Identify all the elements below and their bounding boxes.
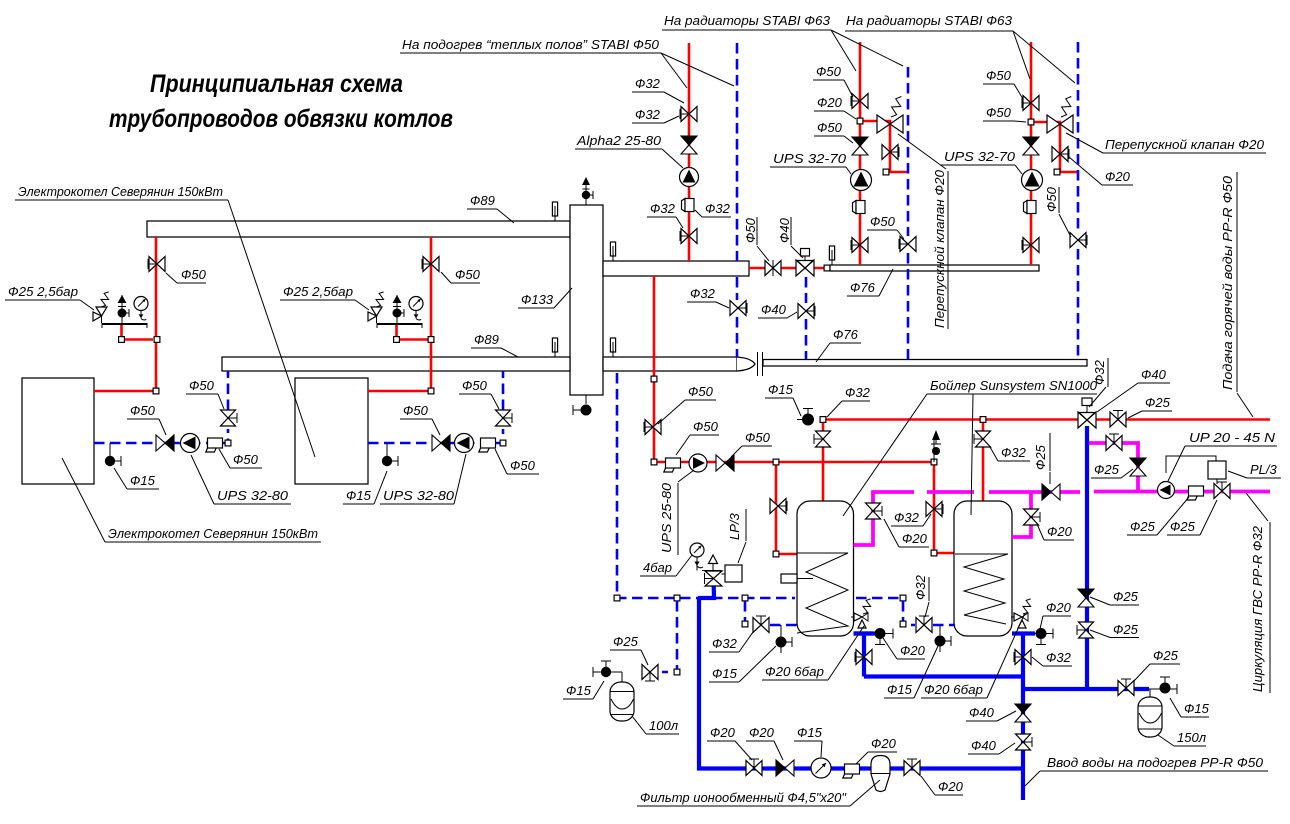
wire DHW primary riser xyxy=(654,276,934,462)
safety assembly 4bar LP/3 xyxy=(694,557,722,586)
secondary supply manifold xyxy=(603,261,749,276)
label F50 r2 sq xyxy=(983,105,1026,122)
label F50 r2 top xyxy=(983,68,1023,99)
label F50 dhw valve xyxy=(658,384,716,424)
wire circulation top link xyxy=(1087,443,1138,492)
wire tank1 cold branch xyxy=(854,634,874,677)
label F40 mixed ret xyxy=(758,302,797,318)
label F50 r1 top xyxy=(813,64,853,97)
check valve radiators1 xyxy=(852,137,868,155)
ball valve F15 expansion xyxy=(601,661,611,677)
wire return riser radiators 2 xyxy=(1077,42,1080,232)
wire cold distribution xyxy=(1023,687,1149,691)
label F32 a xyxy=(632,76,684,103)
label UPS 32-80 no2 xyxy=(380,454,466,504)
wire safety branch boiler2 xyxy=(397,323,429,340)
valve F50 return radiators1 xyxy=(899,237,916,252)
air vent separator top xyxy=(582,177,593,205)
ball valve F15 tank2 drain xyxy=(935,636,952,647)
valve F25 expansion xyxy=(642,665,658,682)
svg-text:Подача горячей воды PP-R Ф50: Подача горячей воды PP-R Ф50 xyxy=(1220,175,1235,390)
label F25 circ check xyxy=(1091,462,1133,478)
svg-text:Перепускной клапан Ф20: Перепускной клапан Ф20 xyxy=(1105,137,1265,152)
label F20 6bar no2 xyxy=(921,613,1025,698)
pump UP 20-45 N xyxy=(1158,482,1175,499)
valve F32 alpha riser top xyxy=(680,107,697,122)
union dhw primary xyxy=(664,458,681,472)
label F15 meter xyxy=(794,725,823,757)
svg-text:Ф50: Ф50 xyxy=(816,64,842,79)
svg-text:Ф89: Ф89 xyxy=(470,193,495,208)
valve F32 tank1 cold xyxy=(855,650,872,665)
svg-text:150л: 150л xyxy=(1177,730,1207,745)
label F50 dhw union xyxy=(676,419,719,455)
svg-text:Ф20: Ф20 xyxy=(1105,169,1131,184)
label F32 tank2 cold valve xyxy=(1032,650,1072,666)
label F25 expansion xyxy=(610,634,648,665)
svg-text:Ф20: Ф20 xyxy=(1046,600,1072,615)
svg-text:Ф20: Ф20 xyxy=(871,736,897,751)
svg-text:Ф50: Ф50 xyxy=(743,217,758,243)
wire riser radiators 2 supply xyxy=(1030,42,1033,265)
valve F50 boiler2 riser xyxy=(422,257,439,272)
safety valve tank1 F20 6bar xyxy=(851,599,871,628)
svg-text:Alpha2 25-80: Alpha2 25-80 xyxy=(576,133,662,148)
expansion vessel 150L xyxy=(1138,689,1162,737)
wire safety branch boiler1 xyxy=(122,323,154,340)
valve F40 mixed return xyxy=(798,304,815,319)
label boiler sunsystem xyxy=(843,378,1098,516)
label F20 meter check xyxy=(746,725,783,760)
label F50 b2 return valve xyxy=(459,378,499,409)
wire tank1 hot out xyxy=(854,492,915,545)
label F25 riser valve xyxy=(1090,622,1139,638)
wire boiler2 return xyxy=(368,429,503,443)
pump UPS 32-80 no2 xyxy=(455,434,474,453)
svg-text:Ф25: Ф25 xyxy=(1153,648,1179,663)
label F133 xyxy=(518,288,572,308)
check valve F25 hot main xyxy=(1042,484,1060,500)
svg-text:Ф15: Ф15 xyxy=(130,473,156,488)
well secondary manifold xyxy=(610,242,615,261)
pressure gauge 4bar xyxy=(690,543,704,557)
svg-text:Ф50: Ф50 xyxy=(688,384,714,399)
label F25 rot check xyxy=(1033,444,1048,470)
safety group boiler1 F25 2.5bar xyxy=(93,292,148,328)
label F32 dhw sq xyxy=(827,385,871,417)
label F40 rot valve xyxy=(777,217,792,243)
svg-text:Ф32: Ф32 xyxy=(635,107,661,122)
pump UPS 32-80 no1 xyxy=(181,434,200,453)
valve F50 radiators2 top xyxy=(1022,96,1039,111)
svg-text:Ф76: Ф76 xyxy=(850,280,876,295)
ball valve F20 tank1 drain2 xyxy=(875,628,886,645)
boiler 1 xyxy=(22,378,94,484)
wire return riser radiators 1 xyxy=(907,67,910,236)
wire DHW hot main xyxy=(927,490,974,494)
label F25 supply valve xyxy=(1128,395,1172,418)
wire riser Alpha2 floor-heating xyxy=(688,43,691,261)
wire tank2 coil feed xyxy=(934,462,955,553)
wire return riser mixed circuit xyxy=(805,277,808,303)
svg-text:Ф25: Ф25 xyxy=(1145,395,1171,410)
label F20 tank1 hot xyxy=(884,519,929,547)
label LP/3 rot xyxy=(727,512,742,540)
valve F25 circulation top xyxy=(1106,434,1122,451)
drain stubs black xyxy=(875,633,893,635)
wire boiler2 red supply out xyxy=(368,237,431,391)
valve F50 radiators1 top xyxy=(851,94,868,109)
label F15 expansion xyxy=(563,681,604,699)
pressure switch LP/3 xyxy=(722,565,743,582)
label F32 union R xyxy=(695,201,731,217)
svg-text:UPS 32-70: UPS 32-70 xyxy=(944,149,1016,164)
svg-text:Перепускной клапан Ф20: Перепускной клапан Ф20 xyxy=(932,169,947,328)
tank2 coil xyxy=(955,554,1008,624)
hydraulic separator F133 xyxy=(570,205,603,395)
label F89 top xyxy=(467,193,514,223)
svg-text:Ф50: Ф50 xyxy=(986,68,1012,83)
label F25 circ union xyxy=(1127,497,1189,535)
ball valve F15 boiler1 xyxy=(105,443,121,466)
wire DHW hot top line xyxy=(824,418,1079,421)
DHW tank 1 Sunsystem SN1000 xyxy=(797,501,854,636)
wire bypass 1 xyxy=(860,121,908,172)
union circulation xyxy=(1187,486,1204,500)
svg-text:UPS 32-80: UPS 32-80 xyxy=(217,488,289,503)
label perepusknoy gor xyxy=(1066,133,1266,153)
valve F32 tank1 top xyxy=(814,431,831,447)
label F32 tank1 ret valve xyxy=(709,632,753,652)
label F15 cold ball xyxy=(1170,698,1210,717)
label F25 2.5bar no1 xyxy=(5,284,94,310)
label perepusknoy vert xyxy=(932,169,947,328)
svg-text:Ф50: Ф50 xyxy=(233,452,259,467)
wire tank1 top connection xyxy=(822,420,825,502)
label F50 r1 check xyxy=(814,120,853,143)
label 100L xyxy=(632,716,679,734)
wire safety group jog xyxy=(698,586,714,598)
pump UPS 32-70 no2 xyxy=(1022,170,1043,191)
svg-text:Ф32: Ф32 xyxy=(705,201,731,216)
svg-text:LP/3: LP/3 xyxy=(727,512,742,540)
svg-text:Ф50: Ф50 xyxy=(462,378,488,393)
pump UPS 32-70 no1 xyxy=(851,170,872,191)
svg-text:Ф50: Ф50 xyxy=(1044,186,1059,212)
svg-text:Ф32: Ф32 xyxy=(1092,359,1107,385)
svg-text:Ф25: Ф25 xyxy=(1113,622,1139,637)
well F76 supply xyxy=(829,246,834,265)
label F25 2.5bar no2 xyxy=(280,284,369,310)
svg-text:Ф20: Ф20 xyxy=(938,779,964,794)
supply manifold F89 top xyxy=(147,221,570,237)
valve F25 circulation xyxy=(1214,482,1230,499)
wire tank2 top connection xyxy=(982,420,985,502)
union alpha riser xyxy=(682,199,695,212)
svg-text:Ф25: Ф25 xyxy=(1170,519,1196,534)
svg-text:Ф20: Ф20 xyxy=(900,643,926,658)
wire tank1 coil feed xyxy=(776,462,797,554)
well supply manifold xyxy=(552,202,557,221)
valve F25 cold distribution xyxy=(1118,679,1134,696)
valve F50 radiators1 bottom xyxy=(851,238,868,253)
valve F32 tank1 coil return xyxy=(753,616,769,633)
label F32 b xyxy=(632,107,679,123)
label F50 b2 union xyxy=(495,449,539,474)
check valve boiler1 return xyxy=(156,435,174,451)
svg-text:Ф15: Ф15 xyxy=(887,682,913,697)
filter ionexchange xyxy=(871,756,890,792)
valve F20 tank1 hot xyxy=(866,503,883,519)
label F32 tank2 feed xyxy=(990,445,1030,461)
ball valve F20 tank2 drain2 xyxy=(1036,628,1047,645)
well return manifold 2 xyxy=(610,338,615,357)
label F40 valve inlet xyxy=(968,738,1015,754)
label F20 meter v1 xyxy=(707,725,752,760)
valve F32 tank2 coil xyxy=(926,502,943,517)
label F50 b1 return valve xyxy=(186,378,224,409)
wire inlet riser xyxy=(1021,634,1025,801)
svg-text:Ф25: Ф25 xyxy=(1130,519,1156,534)
ball valve F15 cold xyxy=(1160,677,1171,694)
svg-text:Ф32: Ф32 xyxy=(712,636,738,651)
label F50 b1 union xyxy=(219,449,262,468)
valve F32 tank1 coil xyxy=(770,499,787,514)
label 150L xyxy=(1158,730,1207,746)
label F25 cold dist valve xyxy=(1134,648,1180,681)
check valve circulation xyxy=(1130,458,1146,476)
label F20 meter v2 xyxy=(921,776,964,795)
svg-text:Ф25: Ф25 xyxy=(1033,444,1048,470)
water meter F15 xyxy=(811,758,831,778)
svg-text:Ф15: Ф15 xyxy=(797,725,823,740)
return pipe F76 xyxy=(763,360,1087,367)
label na radiatory 2 xyxy=(845,13,1030,79)
label F20 bypass2 xyxy=(1069,157,1133,185)
svg-text:Ф50: Ф50 xyxy=(817,120,843,135)
union radiators2 xyxy=(1024,201,1037,214)
svg-text:Ф40: Ф40 xyxy=(777,217,792,243)
valve F32 floor return xyxy=(730,301,747,316)
valve F50 return radiators2 xyxy=(1070,233,1087,248)
label F25 riser check xyxy=(1090,589,1139,605)
svg-text:Ф89: Ф89 xyxy=(474,332,499,347)
svg-text:UPS 32-70: UPS 32-70 xyxy=(773,151,847,166)
label F50 boiler2 valve xyxy=(441,267,481,283)
label F15 dhw ball xyxy=(765,382,801,416)
check valve meter line xyxy=(776,760,794,776)
svg-text:Ф25 2,5бар: Ф25 2,5бар xyxy=(8,284,78,299)
svg-text:трубопроводов обвязки котлов: трубопроводов обвязки котлов xyxy=(109,105,453,133)
valve bypass2 F20 xyxy=(1052,147,1069,162)
valve F20 meter line1 xyxy=(746,759,762,776)
svg-text:PL/3: PL/3 xyxy=(1250,462,1278,477)
svg-text:100л: 100л xyxy=(649,718,679,733)
svg-text:Ф15: Ф15 xyxy=(712,666,738,681)
svg-text:На радиаторы STABI Ф63: На радиаторы STABI Ф63 xyxy=(664,13,831,28)
union boiler1 return xyxy=(206,438,223,452)
overflow valve 2 F20 xyxy=(1047,97,1073,134)
wire tank2 hot out xyxy=(1012,492,1031,537)
label F40 mixer xyxy=(1097,367,1170,412)
svg-text:Ф40: Ф40 xyxy=(1141,367,1167,382)
label F32 rot tank2 ret xyxy=(913,574,928,600)
valve F50 boiler1 riser xyxy=(148,257,165,272)
valve F50 dhw primary xyxy=(644,420,661,435)
label F32 union L xyxy=(647,201,683,228)
tank1 heater port xyxy=(781,574,797,583)
svg-text:Ф50: Ф50 xyxy=(130,403,156,418)
label filtr xyxy=(637,780,880,806)
svg-text:Ф32: Ф32 xyxy=(1001,445,1027,460)
svg-text:Ф15: Ф15 xyxy=(768,382,794,397)
return manifold taper end xyxy=(737,357,755,371)
valve F50 boiler1 return xyxy=(221,410,238,426)
valve F50 manifold outlet xyxy=(765,261,781,276)
svg-text:UPS 25-80: UPS 25-80 xyxy=(659,482,674,553)
label elektrokotel top xyxy=(15,184,315,457)
svg-text:Ф20: Ф20 xyxy=(1047,524,1073,539)
label F50 b1 check xyxy=(127,403,166,435)
svg-text:Ф40: Ф40 xyxy=(761,302,787,317)
label podacha xyxy=(1220,175,1235,390)
wire manifold to F76 supply xyxy=(749,267,830,270)
svg-text:Ф32: Ф32 xyxy=(690,286,716,301)
check valve alpha riser xyxy=(681,136,697,154)
svg-text:Ф76: Ф76 xyxy=(833,327,859,342)
svg-text:Ф50: Ф50 xyxy=(510,458,536,473)
label UPS 32-70 no2 xyxy=(941,149,1022,174)
svg-text:Ф32: Ф32 xyxy=(650,201,676,216)
label F76 return xyxy=(816,327,861,362)
label elektrokotel bottom xyxy=(62,458,321,542)
wire DHW primary return xyxy=(617,373,795,598)
label F20 union xyxy=(856,736,897,764)
svg-text:Ф20: Ф20 xyxy=(749,725,775,740)
label F15 b2 ball xyxy=(343,471,387,504)
svg-text:Ф50: Ф50 xyxy=(745,430,771,445)
wire bypass 2 xyxy=(1031,122,1078,172)
wire expansion branch xyxy=(662,601,677,672)
supply pipe F76 xyxy=(830,265,1039,271)
svg-text:Ф15: Ф15 xyxy=(1184,701,1210,716)
air vent dhw line end xyxy=(931,430,941,462)
wire tanks cold main xyxy=(864,674,1023,678)
valve F32 tank2 cold xyxy=(1014,650,1031,665)
label F50 b2 check xyxy=(400,403,440,435)
label F15 tank2 drain xyxy=(884,646,938,698)
label cirkulacia xyxy=(1250,525,1265,692)
label F25 circ valve xyxy=(1167,500,1217,535)
svg-text:На подогрев “теплых полов” STA: На подогрев “теплых полов” STABI Ф50 xyxy=(402,37,660,52)
ball valve F15 dhw top xyxy=(802,409,814,426)
wire boiler1 return xyxy=(94,429,228,443)
valve F32 tank2 coil return xyxy=(916,616,932,633)
svg-text:Ф50: Ф50 xyxy=(403,403,429,418)
wire return riser floor-heating xyxy=(736,43,739,261)
check valve radiators2 xyxy=(1023,137,1039,155)
svg-text:Ввод воды на подогрев PP-R Ф50: Ввод воды на подогрев PP-R Ф50 xyxy=(1047,755,1264,770)
drain cock separator xyxy=(581,405,592,416)
wire bottom feed line xyxy=(699,598,1023,769)
label F32 floor ret xyxy=(687,286,729,308)
valve F20 tank2 hot xyxy=(1024,509,1041,525)
well return manifold 1 xyxy=(552,338,557,357)
label F32 rot bt xyxy=(1092,359,1107,385)
svg-text:Ф20: Ф20 xyxy=(817,95,843,110)
svg-text:Ф50: Ф50 xyxy=(986,105,1012,120)
union meter line xyxy=(843,764,860,778)
label F20 tank1 drain2 xyxy=(883,638,926,659)
valve F32 tank2 top xyxy=(974,431,991,447)
valve F50 radiators2 bottom xyxy=(1022,238,1039,253)
label na radiatory 1 xyxy=(662,13,856,71)
pump UPS 25-80 xyxy=(689,454,707,472)
label F15 b1 ball xyxy=(114,468,159,489)
wire tank2 coil return stub xyxy=(903,601,915,625)
check valve boiler2 return xyxy=(432,435,450,451)
label UPS 32-70 no1 xyxy=(770,151,851,174)
svg-text:4бар: 4бар xyxy=(643,560,672,575)
svg-text:Ф15: Ф15 xyxy=(566,683,592,698)
svg-text:Фильтр ионообменный Ф4,5"х20": Фильтр ионообменный Ф4,5"х20" xyxy=(640,790,847,805)
return flange pair xyxy=(757,352,759,376)
valve F32 alpha riser bottom xyxy=(680,229,697,244)
svg-text:Принципиальная схема: Принципиальная схема xyxy=(150,70,403,98)
label F20 tank2 hot xyxy=(1037,524,1074,540)
wire tank2 cold branch xyxy=(1012,631,1035,635)
label vvod vody xyxy=(1025,755,1268,786)
label F50 return r2 rot xyxy=(1044,186,1059,212)
valve F25 cold riser xyxy=(1077,622,1094,638)
union boiler2 return xyxy=(479,438,496,452)
label F20 6bar no1 xyxy=(762,626,864,680)
svg-text:Ф32: Ф32 xyxy=(894,510,920,525)
svg-text:Ф25 2,5бар: Ф25 2,5бар xyxy=(283,284,353,299)
check valve dhw primary xyxy=(716,455,734,471)
svg-text:Ф15: Ф15 xyxy=(346,488,372,503)
label F20 r1 xyxy=(814,95,856,119)
svg-text:Электрокотел Северянин 150кВт: Электрокотел Северянин 150кВт xyxy=(18,184,223,199)
svg-text:Ф50: Ф50 xyxy=(870,214,896,229)
svg-text:UPS 32-80: UPS 32-80 xyxy=(383,488,455,503)
check valve cold riser xyxy=(1078,589,1094,607)
svg-text:Ф25: Ф25 xyxy=(1113,589,1139,604)
svg-text:Ф32: Ф32 xyxy=(913,574,928,600)
svg-text:Ф40: Ф40 xyxy=(969,705,995,720)
svg-text:Ф32: Ф32 xyxy=(845,385,871,400)
svg-text:Ф20 6бар: Ф20 6бар xyxy=(924,682,983,697)
valve F50 boiler2 return xyxy=(496,410,513,426)
label F50 return r1 xyxy=(867,214,904,239)
label F89 bottom xyxy=(471,332,518,357)
svg-text:Ф32: Ф32 xyxy=(635,76,661,91)
safety valve tank2 F20 6bar xyxy=(1011,599,1031,628)
check valve F40 inlet xyxy=(1015,704,1031,722)
label UPS 25-80 rot xyxy=(659,482,674,553)
label F50 boiler1 valve xyxy=(166,267,207,283)
label UP 20-45 N xyxy=(1168,430,1277,481)
svg-text:Ф25: Ф25 xyxy=(1094,462,1120,477)
boiler 2 xyxy=(295,378,368,484)
ball valve F15 tank1 drain xyxy=(776,637,793,648)
svg-text:Ф40: Ф40 xyxy=(971,738,997,753)
overflow valve 1 F20 xyxy=(877,97,903,134)
svg-text:Ф25: Ф25 xyxy=(613,634,639,649)
valve F40 inlet xyxy=(1016,734,1033,750)
label F20 tank2 drain2 xyxy=(1040,600,1072,629)
svg-text:UP 20 - 45 N: UP 20 - 45 N xyxy=(1189,430,1276,445)
